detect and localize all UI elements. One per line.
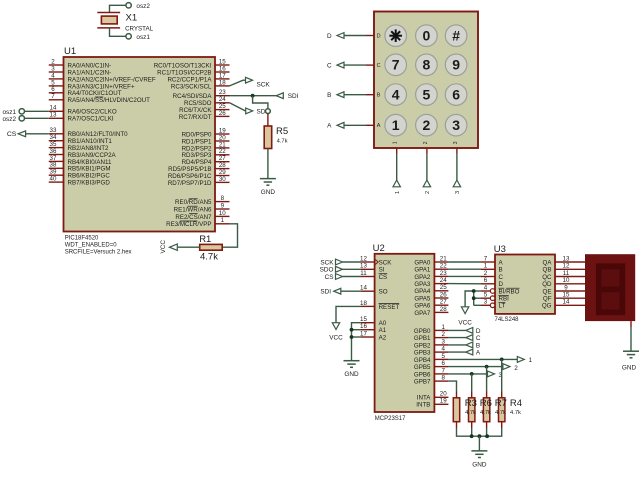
svg-text:22: 22 — [440, 263, 447, 270]
resistor R5 — [264, 126, 272, 149]
terminal 3 — [488, 371, 495, 377]
terminal D — [337, 33, 344, 39]
wire GPB7 to R3 — [448, 381, 456, 391]
U1 pin 13 — [49, 117, 64, 119]
svg-text:6: 6 — [452, 87, 460, 103]
U1 pin 24 — [215, 102, 230, 104]
overline SS on RA5 label — [95, 96, 103, 98]
U2 pin 12 — [361, 261, 375, 263]
terminal 3 — [453, 180, 460, 187]
svg-text:4.7k: 4.7k — [465, 410, 476, 416]
keypad col pin 1 — [396, 148, 398, 154]
svg-text:4: 4 — [51, 72, 55, 79]
U2 pin 23 — [434, 275, 448, 277]
svg-text:GPB3: GPB3 — [414, 350, 431, 357]
svg-text:6: 6 — [441, 360, 445, 367]
svg-text:20: 20 — [440, 391, 447, 398]
keypad row pin C — [366, 64, 374, 66]
svg-text:9: 9 — [221, 202, 225, 209]
svg-text:RA5/AN4/SS/HLVDIN/C2OUT: RA5/AN4/SS/HLVDIN/C2OUT — [68, 97, 151, 104]
resistor R7 — [486, 392, 488, 398]
svg-text:GPA0: GPA0 — [414, 259, 431, 266]
svg-text:11: 11 — [360, 270, 367, 277]
terminal C — [337, 62, 344, 68]
U3 pin 15 — [555, 297, 585, 299]
U1 pin 21 — [215, 147, 230, 149]
junction A2 — [350, 335, 354, 339]
keypad button 6 — [445, 84, 467, 106]
wire keypad row C — [344, 64, 366, 66]
svg-text:14: 14 — [360, 285, 367, 292]
keypad button 2 — [416, 114, 438, 136]
wire U2 GPA to U3 — [448, 261, 481, 263]
U2 pin 13 — [361, 268, 375, 270]
svg-text:4: 4 — [484, 284, 488, 291]
wire GPB4 to terminal 1 — [448, 358, 517, 360]
svg-text:CRYSTAL: CRYSTAL — [125, 25, 154, 32]
resistor R6 — [471, 392, 473, 398]
wire resistor bottoms bus — [457, 428, 502, 436]
wire keypad col 3 — [456, 154, 458, 181]
U1 pin 34 — [49, 140, 64, 142]
wire GPB to terminal D — [448, 329, 465, 331]
U1 pin 14 — [49, 110, 64, 112]
U3 pin 9 — [555, 290, 585, 292]
svg-text:4: 4 — [392, 87, 400, 103]
svg-text:X1: X1 — [126, 12, 138, 23]
svg-text:RE0/RD/AN5: RE0/RD/AN5 — [175, 199, 212, 206]
U2 pin 8 — [434, 380, 448, 382]
svg-text:RC3/SCK/SCL: RC3/SCK/SCL — [171, 83, 212, 90]
wire RESET to VCC — [336, 306, 361, 322]
wire GPB to terminal A — [448, 351, 465, 353]
svg-text:26: 26 — [440, 291, 447, 298]
svg-text:13: 13 — [360, 263, 367, 270]
U2 pin 25 — [434, 290, 448, 292]
U1 pin 26 — [215, 115, 230, 117]
svg-text:WDT_ENABLED=0: WDT_ENABLED=0 — [65, 242, 118, 248]
svg-text:GPB4: GPB4 — [414, 357, 431, 364]
svg-text:9: 9 — [452, 57, 460, 73]
resistor R3 — [456, 392, 458, 398]
terminal CS to RB0 — [18, 131, 26, 137]
U1 pin 1 — [215, 223, 230, 225]
svg-text:D: D — [499, 281, 504, 288]
U1 pin 18 — [215, 85, 230, 87]
svg-text:11: 11 — [563, 270, 570, 277]
svg-text:8: 8 — [441, 375, 445, 382]
svg-text:RC7/RX/DT: RC7/RX/DT — [179, 114, 212, 121]
svg-text:27: 27 — [440, 299, 447, 306]
svg-text:CS: CS — [7, 131, 17, 138]
U1 pin 4 — [49, 78, 64, 80]
svg-text:R7: R7 — [495, 398, 507, 409]
junction bus b — [470, 434, 474, 438]
svg-text:1: 1 — [221, 217, 225, 224]
svg-text:RC4/SDI/SDA: RC4/SDI/SDA — [173, 93, 213, 100]
svg-text:A0: A0 — [379, 320, 387, 327]
power terminal VCC at R1 — [170, 244, 178, 250]
U3 pin 12 — [555, 268, 585, 270]
U1 pin 9 — [215, 208, 230, 210]
terminal osz2 to RA7 — [19, 116, 24, 121]
svg-text:2: 2 — [425, 191, 431, 194]
U3 pin 1 — [481, 268, 495, 270]
U1 pin 16 — [215, 71, 230, 73]
op U2 body — [375, 254, 435, 412]
svg-text:2: 2 — [51, 58, 55, 65]
ground below display — [623, 350, 639, 352]
junction on SDI wire — [251, 94, 255, 98]
overline WR on RE1 label — [187, 205, 197, 207]
svg-text:12: 12 — [360, 255, 367, 262]
wire to resistor c top — [486, 367, 488, 392]
terminal A at U2 — [466, 349, 473, 355]
U1 pin 5 — [49, 85, 64, 87]
wire keypad row A — [344, 124, 366, 126]
svg-text:GPA7: GPA7 — [414, 310, 431, 317]
U2 pin 16 — [361, 329, 375, 331]
terminal C at U2 — [466, 335, 473, 341]
svg-text:GPA3: GPA3 — [414, 281, 431, 288]
terminal B at U2 — [466, 342, 473, 348]
svg-text:16: 16 — [360, 323, 367, 330]
keypad button 7 — [385, 54, 407, 76]
U1 pin 33 — [49, 133, 64, 135]
svg-text:7: 7 — [392, 57, 400, 73]
svg-text:15: 15 — [219, 58, 226, 65]
svg-text:8: 8 — [423, 57, 431, 73]
U1 pin 3 — [49, 71, 64, 73]
svg-text:R1: R1 — [199, 234, 211, 245]
svg-text:GPB7: GPB7 — [414, 379, 431, 386]
ground below R5 — [260, 178, 276, 180]
U1 pin 29 — [215, 175, 230, 177]
svg-text:25: 25 — [440, 284, 447, 291]
U1 pin 8 — [215, 201, 230, 203]
svg-text:B: B — [476, 343, 480, 350]
svg-text:D: D — [377, 34, 381, 40]
svg-text:RA2/AN2/C2IN+/VREF-/CVREF: RA2/AN2/C2IN+/VREF-/CVREF — [68, 76, 156, 83]
svg-text:osz1: osz1 — [136, 34, 150, 41]
terminal SDI — [276, 93, 283, 99]
svg-text:BI/RBO: BI/RBO — [499, 288, 520, 295]
svg-text:SDI: SDI — [320, 289, 331, 296]
wire bus to ground — [478, 436, 480, 451]
wire GPB to terminal C — [448, 337, 465, 339]
U1 pin 40 — [49, 181, 64, 183]
svg-text:RA7/OSC1/CLKI: RA7/OSC1/CLKI — [68, 116, 114, 123]
svg-text:1: 1 — [529, 357, 533, 364]
svg-text:26: 26 — [219, 110, 226, 117]
terminal SCK — [246, 77, 253, 83]
keypad row pin B — [366, 94, 374, 96]
U2 SCK clock mark — [375, 259, 379, 265]
svg-text:#: # — [452, 28, 460, 44]
U1 pin 23 — [215, 95, 230, 97]
svg-text:RBI: RBI — [499, 296, 510, 303]
svg-text:19: 19 — [219, 127, 226, 134]
U1 pin 22 — [215, 154, 230, 156]
junction RBI — [472, 296, 476, 300]
svg-text:VCC: VCC — [458, 320, 472, 327]
wire U2 GPA to U3 — [448, 283, 481, 285]
svg-text:B: B — [327, 92, 331, 99]
U1 pin 35 — [49, 147, 64, 149]
keypad col pin 2 — [426, 148, 428, 154]
svg-text:13: 13 — [563, 255, 570, 262]
wire SDO from pin 24 — [230, 103, 246, 111]
svg-text:QB: QB — [543, 267, 552, 274]
junction R bank c top — [485, 365, 489, 369]
terminal A — [337, 122, 344, 128]
svg-text:CS: CS — [325, 274, 334, 281]
svg-text:3: 3 — [484, 299, 488, 306]
wire keypad row D — [344, 35, 366, 37]
svg-text:U2: U2 — [373, 243, 385, 254]
svg-text:A2: A2 — [379, 334, 387, 341]
op U1 body — [64, 57, 216, 232]
U2 pin 15 — [361, 322, 375, 324]
svg-text:28: 28 — [440, 306, 447, 313]
terminal D at U2 — [466, 328, 473, 334]
keypad button 3 — [445, 114, 467, 136]
overline LT on U3 pin 3 — [499, 302, 506, 304]
power terminal VCC at U2 RESET — [332, 323, 339, 330]
svg-text:14: 14 — [50, 105, 57, 112]
svg-text:A: A — [327, 123, 332, 130]
svg-text:RD0/PSP0: RD0/PSP0 — [182, 131, 212, 138]
keypad button * — [385, 25, 407, 47]
wire keypad col 2 — [426, 154, 428, 181]
svg-text:2: 2 — [423, 141, 429, 144]
svg-text:B: B — [377, 93, 381, 99]
U1 pin 36 — [49, 154, 64, 156]
junction BI/RBO — [472, 289, 476, 293]
svg-text:GPA2: GPA2 — [414, 274, 431, 281]
U2 pin 21 — [434, 261, 448, 263]
svg-text:QE: QE — [543, 288, 552, 295]
U2 pin 1 — [434, 329, 448, 331]
wire keypad row B — [344, 94, 366, 96]
svg-text:1: 1 — [484, 263, 488, 270]
svg-text:GPA6: GPA6 — [414, 303, 431, 310]
svg-text:CS: CS — [379, 274, 388, 281]
svg-text:4.7k: 4.7k — [277, 139, 288, 145]
svg-text:VCC: VCC — [160, 240, 167, 254]
U1 pin 30 — [215, 181, 230, 183]
svg-text:GND: GND — [261, 189, 276, 196]
svg-text:2: 2 — [441, 331, 445, 338]
svg-text:RC2/CCP1/P1A: RC2/CCP1/P1A — [167, 76, 212, 83]
svg-text:GPB1: GPB1 — [414, 335, 431, 342]
svg-text:R3: R3 — [465, 398, 477, 409]
keypad button 0 — [416, 25, 438, 47]
svg-text:5: 5 — [423, 87, 431, 103]
svg-text:LT: LT — [499, 303, 506, 310]
wire U2 GPA to U3 — [448, 275, 481, 277]
terminal 1 — [517, 357, 524, 363]
ground below resistor bank — [471, 450, 487, 452]
U1 pin 2 — [49, 64, 64, 66]
U3 pin 2 — [481, 276, 495, 278]
svg-text:GPB5: GPB5 — [414, 364, 431, 371]
svg-text:GPA5: GPA5 — [414, 295, 431, 302]
keypad button 1 — [385, 114, 407, 136]
keypad row pin A — [366, 124, 374, 126]
svg-text:23: 23 — [219, 89, 226, 96]
U1 pin 38 — [49, 167, 64, 169]
svg-text:17: 17 — [360, 330, 367, 337]
keypad button 4 — [385, 84, 407, 106]
svg-text:VCC: VCC — [329, 335, 343, 342]
svg-text:SDI: SDI — [288, 93, 299, 100]
svg-text:QG: QG — [542, 303, 552, 310]
U2 pin 6 — [434, 366, 448, 368]
svg-text:12: 12 — [563, 263, 570, 270]
svg-text:QF: QF — [543, 296, 552, 303]
svg-text:D: D — [327, 33, 332, 40]
svg-text:6: 6 — [51, 86, 55, 93]
svg-text:5: 5 — [484, 292, 488, 299]
wire to resistor d top — [501, 359, 503, 391]
svg-text:24: 24 — [440, 277, 447, 284]
crystal X1 — [97, 12, 120, 14]
svg-text:GND: GND — [622, 364, 637, 371]
overline RD on RE0 label — [189, 198, 198, 200]
terminal B — [337, 92, 344, 98]
svg-text:7: 7 — [484, 255, 488, 262]
wire SDI from pin 23 — [230, 95, 277, 97]
svg-text:A1: A1 — [379, 327, 387, 334]
svg-text:U3: U3 — [494, 244, 506, 255]
svg-text:30: 30 — [219, 176, 226, 183]
resistor R1 — [200, 244, 223, 250]
op U3 body — [495, 255, 555, 314]
terminal 1 — [393, 180, 400, 187]
svg-text:15: 15 — [563, 292, 570, 299]
svg-text:C: C — [499, 274, 504, 281]
svg-text:8: 8 — [221, 195, 225, 202]
svg-text:4: 4 — [441, 346, 445, 353]
terminal osz1 to RA6 — [19, 109, 24, 114]
wire R1 to VCC — [178, 246, 200, 248]
svg-text:RC0/T1OSO/T13CKI: RC0/T1OSO/T13CKI — [154, 62, 212, 69]
svg-text:1: 1 — [392, 117, 400, 133]
svg-text:4.7k: 4.7k — [510, 410, 521, 416]
svg-text:9: 9 — [564, 284, 568, 291]
svg-text:SRCFILE=Versuch 2.hex: SRCFILE=Versuch 2.hex — [65, 249, 132, 255]
U1 pin 20 — [215, 140, 230, 142]
svg-text:osz1: osz1 — [3, 109, 17, 116]
U3 pin 7 — [481, 261, 495, 263]
resistor R4 — [501, 392, 503, 398]
svg-text:RE1/WR/AN6: RE1/WR/AN6 — [174, 206, 212, 213]
svg-text:74LS248: 74LS248 — [495, 317, 520, 323]
svg-text:RA4/T0CKI/C1OUT: RA4/T0CKI/C1OUT — [68, 90, 122, 97]
svg-text:B: B — [499, 267, 503, 274]
svg-text:0: 0 — [423, 28, 431, 44]
wire crystal to osz1 — [110, 28, 126, 36]
U2 pin 27 — [434, 304, 448, 306]
overline CS on RE2 label — [189, 213, 198, 215]
svg-text:5: 5 — [441, 353, 445, 360]
svg-text:40: 40 — [50, 176, 57, 183]
wire pin1 to R1 — [222, 224, 237, 247]
U3 pin 6 — [481, 283, 495, 285]
terminal osz1 — [126, 34, 131, 39]
keypad button 8 — [416, 54, 438, 76]
U2 pin 26 — [434, 297, 448, 299]
svg-text:SCK: SCK — [379, 259, 393, 266]
svg-text:R4: R4 — [510, 398, 522, 409]
U2 pin 19 — [434, 403, 448, 405]
svg-text:18: 18 — [219, 79, 226, 86]
keypad button # — [445, 25, 467, 47]
junction R bank b top — [470, 372, 474, 376]
terminal 2 — [503, 364, 510, 370]
svg-text:PIC18F4520: PIC18F4520 — [65, 235, 99, 241]
svg-text:D: D — [476, 328, 481, 335]
svg-text:RESET: RESET — [379, 304, 400, 311]
svg-text:RE2/CS/AN7: RE2/CS/AN7 — [175, 214, 212, 221]
svg-text:C: C — [476, 335, 481, 342]
U2 pin 7 — [434, 373, 448, 375]
svg-text:GPB0: GPB0 — [414, 328, 431, 335]
svg-text:RA0/AN0/C1IN-: RA0/AN0/C1IN- — [68, 62, 112, 69]
svg-text:15: 15 — [360, 316, 367, 323]
wire GPB5 to terminal 2 — [448, 366, 503, 368]
svg-text:4.7k: 4.7k — [200, 252, 218, 263]
ground below U2 — [344, 360, 360, 362]
junction A1 — [350, 328, 354, 332]
keypad button 9 — [445, 54, 467, 76]
junction bus c — [485, 434, 489, 438]
wire A0 A1 A2 to ground — [352, 323, 362, 361]
svg-text:GPA1: GPA1 — [414, 267, 431, 274]
svg-text:A: A — [377, 123, 381, 129]
svg-text:GPB6: GPB6 — [414, 371, 431, 378]
svg-text:2: 2 — [423, 117, 431, 133]
svg-text:SI: SI — [379, 267, 385, 274]
svg-text:14: 14 — [563, 299, 570, 306]
svg-text:SDO: SDO — [320, 267, 334, 274]
svg-text:7: 7 — [441, 367, 445, 374]
svg-text:A: A — [476, 350, 481, 357]
U2 pin 22 — [434, 268, 448, 270]
svg-text:2: 2 — [514, 365, 518, 372]
overline MCLR on RE3 label — [180, 220, 198, 222]
svg-text:21: 21 — [440, 255, 447, 262]
U1 pin 27 — [215, 161, 230, 163]
wire GPB6 to terminal 3 — [448, 373, 487, 375]
overline RESET on U2 pin 18 — [379, 303, 400, 305]
svg-text:R5: R5 — [276, 126, 288, 137]
svg-text:4.7k: 4.7k — [480, 410, 491, 416]
terminal 2 — [423, 180, 430, 187]
overline BI on U3 pin 4 — [499, 287, 505, 289]
U3 pin 5 — [481, 297, 490, 299]
svg-text:QC: QC — [542, 274, 552, 281]
U3 pin 3 — [481, 304, 490, 306]
U2 pin 11 — [361, 276, 375, 278]
U2 pin 5 — [434, 358, 448, 360]
svg-text:U1: U1 — [64, 46, 76, 57]
svg-text:SO: SO — [379, 289, 388, 296]
U3 pin 14 — [555, 304, 585, 306]
svg-text:GPB2: GPB2 — [414, 342, 431, 349]
wire U2 GPA to U3 — [448, 268, 481, 270]
